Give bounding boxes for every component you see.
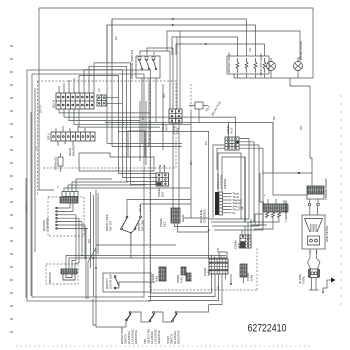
svg-text:3A 125VAC: 3A 125VAC	[150, 331, 154, 344]
svg-text:EE1: EE1	[163, 221, 167, 227]
svg-text:GR 8: GR 8	[138, 205, 142, 212]
svg-text:SW 1ST: SW 1ST	[109, 220, 113, 231]
wire A+B left runs	[213, 145, 225, 218]
svg-text:WATER VALVE: WATER VALVE	[227, 52, 231, 73]
svg-text:(6): (6)	[97, 88, 101, 92]
wire mid horizontals	[105, 123, 273, 260]
connector CONN A+B	[225, 137, 239, 150]
wires y143 pair	[107, 143, 182, 146]
svg-text:GR 6: GR 6	[47, 133, 51, 140]
inline fuse	[308, 251, 321, 290]
wire big conn top	[212, 248, 228, 259]
svg-text:SWITCH: SWITCH	[124, 334, 128, 344]
wire (6) stubs	[106, 98, 123, 104]
wire transformer drop	[311, 173, 313, 186]
console inner box	[32, 74, 144, 297]
wire pump connections	[271, 58, 300, 78]
wire outer top loop	[39, 8, 313, 78]
wire x273 to transformer	[273, 173, 307, 195]
svg-text:BU: BU	[114, 36, 118, 40]
right margin legend	[340, 96, 342, 304]
junction dot nested	[230, 283, 232, 285]
svg-text:A-A5: A-A5	[250, 274, 254, 281]
svg-text:WH-12: WH-12	[25, 203, 29, 212]
svg-text:TRANSFORMER: TRANSFORMER	[324, 178, 328, 200]
wire door switch top feeds	[127, 199, 191, 216]
wire right trunk x290-310	[290, 78, 312, 173]
svg-text:HOT: HOT	[165, 125, 169, 131]
drain pump M2	[267, 62, 303, 71]
svg-text:MOTOR: MOTOR	[48, 272, 52, 283]
wire right bundle verticals	[249, 160, 263, 230]
svg-text:TB-1: TB-1	[204, 105, 211, 113]
svg-text:BU-14: BU-14	[39, 104, 43, 113]
wire MC stub drops	[70, 203, 86, 299]
dashed vertical x191	[190, 84, 192, 110]
svg-text:WH: WH	[299, 126, 303, 130]
wire y173 bus	[262, 172, 312, 174]
dashed vertical x150	[149, 84, 151, 290]
wire valve bottoms to bus	[234, 74, 265, 78]
wire door bottom bus	[96, 245, 176, 258]
wire trunk y37	[172, 37, 238, 56]
wire thermal connections	[254, 218, 273, 229]
wire gauge labels scattered	[34, 36, 303, 290]
svg-text:RESISTIVE: RESISTIVE	[134, 330, 138, 344]
connector MC hatched strip	[60, 197, 78, 203]
arrowhead y44	[205, 43, 208, 45]
svg-text:3A 125VAC: 3A 125VAC	[127, 331, 131, 344]
door switch TB1	[189, 102, 208, 109]
svg-text:JA B: JA B	[237, 243, 241, 249]
wire B31 top stubs	[160, 167, 164, 174]
wire TB1 drop	[198, 109, 200, 123]
svg-text:SW 2ND: SW 2ND	[141, 220, 145, 231]
wire line filter outputs	[310, 249, 317, 258]
svg-text:SWITCH: SWITCH	[170, 334, 174, 344]
transformer T1	[307, 186, 324, 206]
svg-text:WH: WH	[162, 94, 166, 98]
console outer box	[27, 70, 151, 301]
ground arrow	[322, 278, 335, 294]
motor control dashed box	[48, 197, 84, 236]
junction dot y173	[298, 172, 300, 174]
wire strip1 short stubs up	[59, 78, 74, 93]
svg-text:A-A1: A-A1	[180, 276, 184, 283]
connector MC pins row	[62, 192, 78, 197]
ladder stub labels	[233, 192, 243, 215]
wire right cluster runs	[209, 219, 263, 230]
wire trunk verticals mid	[140, 84, 163, 165]
wire left trunk x39	[39, 8, 54, 190]
wire trunk y19	[112, 19, 247, 62]
connector pair mid	[176, 267, 191, 283]
svg-text:SPD: SPD	[143, 339, 147, 344]
junction A+B	[236, 141, 238, 143]
wire motor feeds	[66, 256, 226, 270]
wire JA-B feeds	[242, 219, 251, 235]
arrowhead y19	[172, 18, 175, 20]
thermal fuse strip	[263, 204, 288, 218]
wire diagonal left	[88, 248, 96, 299]
svg-text:A1-B: A1-B	[230, 128, 234, 134]
wire PS pin stubs up	[140, 48, 173, 55]
rear board sub-box	[128, 131, 145, 157]
wire transformer leads	[310, 206, 318, 215]
svg-text:WIRING: WIRING	[223, 177, 227, 189]
junction dots x93	[92, 257, 94, 259]
svg-text:RESISTIVE: RESISTIVE	[157, 330, 161, 344]
wire MC top feeds	[64, 179, 190, 192]
connector CONN A-A1 top	[169, 109, 182, 123]
small box left of thermal	[255, 214, 263, 225]
svg-text:START: START	[166, 335, 170, 344]
console dashed box	[38, 81, 177, 195]
connector CONN JA-B	[240, 235, 251, 248]
svg-text:BU: BU	[87, 239, 91, 243]
connector big CONN A-A2	[209, 259, 228, 274]
svg-text:CONTROL: CONTROL	[203, 208, 207, 223]
connector CONN A-A5	[240, 264, 247, 277]
svg-text:DOOR SW: DOOR SW	[109, 274, 113, 289]
svg-text:BLK B: BLK B	[52, 100, 56, 108]
svg-text:3A 125VAC: 3A 125VAC	[173, 331, 177, 344]
svg-text:62722410: 62722410	[248, 322, 287, 334]
svg-text:WATER TEMP: WATER TEMP	[120, 327, 124, 344]
wire right trunk x273	[272, 123, 274, 174]
svg-text:RESISTIVE: RESISTIVE	[177, 330, 181, 344]
rear board stepped box	[79, 153, 154, 171]
junction dot door	[130, 232, 132, 234]
connector BLK-B strip1	[56, 93, 94, 109]
svg-text:1.5A 250VAC: 1.5A 250VAC	[154, 328, 158, 344]
label TB-1 RELAY PCB	[204, 101, 221, 117]
wire A+B top feeds	[229, 117, 236, 137]
wire MC stubs	[56, 207, 88, 229]
wire A-A5 stub	[243, 277, 245, 283]
connector CONN B31	[156, 173, 169, 186]
svg-text:DRAIN PUMP: DRAIN PUMP	[299, 41, 303, 60]
wire trunk y31	[167, 31, 300, 61]
connector CONN GRN	[58, 153, 63, 172]
svg-text:1.5A 250VAC: 1.5A 250VAC	[131, 328, 135, 344]
bottom switch labels	[120, 327, 181, 344]
wire strip2 stubs	[56, 126, 85, 146]
wire trunk y44	[176, 44, 265, 56]
connector CONN C hatched	[159, 267, 166, 281]
safety door box	[103, 273, 155, 292]
wire bottom nested runs	[148, 274, 231, 305]
svg-text:LINE FILTER: LINE FILTER	[325, 226, 329, 242]
wire x191	[190, 110, 192, 218]
svg-text:B31: B31	[161, 191, 165, 197]
pressure switch PS1	[136, 56, 160, 78]
svg-text:V: V	[57, 185, 59, 189]
wire bus drop left	[260, 173, 264, 204]
svg-text:Y: Y	[263, 194, 267, 196]
dashed MC bottom	[150, 248, 257, 290]
wire strip1 pins down laterals	[59, 109, 236, 127]
svg-text:GR: GR	[248, 48, 252, 52]
bottom footer dots	[16, 345, 310, 347]
svg-text:RELAY PCB: RELAY PCB	[210, 101, 221, 117]
svg-text:WH: WH	[189, 161, 193, 165]
arrowhead y25	[172, 24, 175, 26]
left wire bundle	[26, 88, 35, 298]
svg-text:CONN (G): CONN (G)	[54, 156, 58, 170]
machine control ladder connector	[215, 192, 223, 215]
wire A-A1 feeds	[170, 31, 180, 109]
wire left bundle mid	[91, 190, 99, 301]
svg-text:GR: GR	[216, 286, 220, 290]
wire nested corners above ladder	[218, 153, 245, 192]
svg-text:THERMAL FUSE: THERMAL FUSE	[284, 200, 288, 222]
connector (6)	[97, 95, 106, 106]
svg-text:BK: BK	[240, 206, 244, 210]
svg-text:CONTROL: CONTROL	[46, 216, 50, 231]
wire A-A1 to GR10	[173, 123, 179, 208]
switch run bottom	[93, 299, 209, 327]
svg-text:BU: BU	[204, 141, 208, 145]
left margin notes	[10, 46, 13, 332]
svg-text:GY: GY	[141, 116, 145, 120]
svg-text:BK: BK	[272, 116, 276, 120]
svg-text:DISP HOT COLD: DISP HOT COLD	[259, 54, 263, 76]
wire GR10 bottom runs	[175, 223, 209, 232]
connector block GR10	[171, 208, 180, 223]
svg-text:FUSE: FUSE	[302, 276, 306, 284]
svg-text:A-A1: A-A1	[155, 275, 159, 282]
wire staircase from strip1 up-right	[79, 63, 156, 185]
wire PS pins down	[142, 78, 156, 147]
water valve V1	[227, 56, 269, 74]
wire A+B right runs	[239, 139, 263, 160]
svg-text:BOARD: BOARD	[72, 146, 76, 156]
connector GR6 strip2	[51, 132, 95, 141]
wire ladder stubs	[223, 194, 232, 213]
wire trunk y25	[107, 25, 256, 62]
door lock switch pair	[121, 216, 142, 245]
svg-text:SELECT SW: SELECT SW	[147, 329, 151, 344]
wire bottom bus y78	[234, 77, 313, 79]
line filter LF1	[302, 215, 325, 249]
box above big connector	[219, 252, 227, 258]
motor M1	[46, 264, 78, 284]
